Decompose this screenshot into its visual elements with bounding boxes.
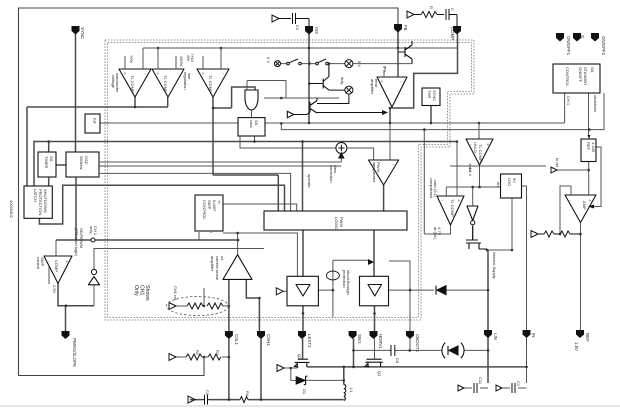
svg-text:IN: IN bbox=[531, 333, 536, 337]
svg-text:L1: L1 bbox=[349, 388, 354, 393]
svg-text:4.1 V: 4.1 V bbox=[468, 167, 473, 177]
svg-text:control: control bbox=[36, 257, 41, 269]
svg-text:(TTL level logic): (TTL level logic) bbox=[74, 228, 79, 257]
svg-text:CBOOT1: CBOOT1 bbox=[415, 334, 420, 353]
svg-text:5 V: 5 V bbox=[266, 57, 271, 63]
svg-text:amplifier: amplifier bbox=[370, 79, 375, 95]
svg-text:R4: R4 bbox=[245, 391, 250, 397]
svg-text:R: R bbox=[429, 6, 434, 9]
svg-text:operate: operate bbox=[307, 174, 312, 188]
svg-text:F/F: F/F bbox=[92, 118, 97, 125]
svg-text:LOGIC: LOGIC bbox=[334, 217, 339, 230]
svg-text:gm: gm bbox=[383, 66, 388, 72]
svg-text:to ref: to ref bbox=[555, 158, 560, 168]
svg-text:+: + bbox=[487, 142, 490, 147]
svg-text:C5: C5 bbox=[205, 390, 210, 396]
svg-text:on: on bbox=[496, 182, 501, 186]
svg-text:R1: R1 bbox=[215, 350, 220, 356]
svg-text:+: + bbox=[373, 162, 376, 167]
svg-text:CONTROL: CONTROL bbox=[565, 67, 570, 87]
svg-text:AMP: AMP bbox=[582, 201, 587, 210]
svg-text:ON/OFF: ON/OFF bbox=[578, 67, 583, 83]
svg-text:COMP: COMP bbox=[54, 260, 59, 272]
svg-text:LATCH: LATCH bbox=[33, 189, 38, 202]
svg-text:ON/OFF2: ON/OFF2 bbox=[601, 36, 606, 56]
svg-text:correction: correction bbox=[329, 165, 334, 183]
svg-text:Internal Supply: Internal Supply bbox=[492, 252, 497, 279]
svg-text:+: + bbox=[589, 198, 592, 203]
svg-text:LDO: LDO bbox=[507, 178, 512, 186]
svg-text:±50%: ±50% bbox=[179, 56, 184, 67]
svg-text:+: + bbox=[66, 259, 69, 264]
svg-text:C: C bbox=[450, 8, 455, 11]
svg-text:C1: C1 bbox=[516, 381, 521, 387]
svg-text:CH 1: CH 1 bbox=[566, 96, 571, 106]
svg-text:2.5V: 2.5V bbox=[52, 285, 57, 294]
svg-text:TL COMP: TL COMP bbox=[478, 144, 483, 162]
svg-text:only: only bbox=[89, 226, 94, 233]
svg-text:COMP: COMP bbox=[450, 27, 455, 40]
svg-text:SYNC: SYNC bbox=[80, 27, 85, 39]
svg-text:voltage: voltage bbox=[111, 75, 116, 89]
svg-text:PWM1/SLOPE: PWM1/SLOPE bbox=[72, 338, 77, 367]
svg-text:comparator: comparator bbox=[429, 178, 434, 199]
svg-text:REF: REF bbox=[585, 333, 590, 342]
svg-text:cont: cont bbox=[249, 120, 254, 128]
svg-text:+: + bbox=[458, 198, 461, 203]
svg-text:THR: THR bbox=[427, 90, 432, 98]
svg-text:10009402: 10009402 bbox=[9, 200, 14, 219]
svg-text:TL COMP: TL COMP bbox=[208, 75, 213, 93]
svg-text:CONTROL: CONTROL bbox=[202, 200, 207, 220]
svg-text:C11: C11 bbox=[478, 377, 483, 385]
svg-text:+: + bbox=[124, 71, 127, 76]
svg-text:C3: C3 bbox=[295, 25, 300, 31]
svg-text:70%: 70% bbox=[129, 55, 134, 63]
svg-text:amplifier: amplifier bbox=[210, 256, 215, 272]
svg-text:TIMER: TIMER bbox=[44, 156, 49, 169]
svg-text:UVLO: UVLO bbox=[473, 142, 478, 153]
svg-text:5 V: 5 V bbox=[357, 61, 362, 67]
svg-text:SS: SS bbox=[590, 67, 595, 73]
svg-text:protection: protection bbox=[342, 270, 347, 288]
svg-text:ON/OFF1: ON/OFF1 bbox=[566, 36, 571, 56]
svg-text:D1: D1 bbox=[302, 389, 307, 395]
svg-text:SW1: SW1 bbox=[357, 334, 362, 344]
svg-text:Q2: Q2 bbox=[297, 354, 302, 360]
svg-text:R2: R2 bbox=[195, 350, 200, 356]
svg-text:duty: duty bbox=[340, 77, 345, 85]
svg-text:LEXT1: LEXT1 bbox=[307, 334, 312, 348]
svg-text:ISS: ISS bbox=[314, 27, 319, 34]
svg-text:G: G bbox=[580, 35, 585, 39]
svg-text:Q1: Q1 bbox=[377, 371, 382, 377]
svg-text:CSL1: CSL1 bbox=[234, 334, 239, 346]
svg-text:FB: FB bbox=[403, 25, 408, 31]
svg-text:1.5V: 1.5V bbox=[574, 342, 579, 351]
svg-text:CH1 ref: CH1 ref bbox=[173, 286, 178, 301]
svg-text:TL COMP: TL COMP bbox=[450, 199, 455, 217]
svg-text:TL COMP: TL COMP bbox=[130, 75, 135, 93]
svg-text:TL COMP: TL COMP bbox=[163, 75, 168, 93]
svg-text:C8: C8 bbox=[395, 358, 400, 364]
svg-text:+: + bbox=[202, 71, 205, 76]
svg-text:regulation: regulation bbox=[183, 72, 188, 90]
svg-text:Only: Only bbox=[133, 285, 139, 296]
svg-text:shutdown: shutdown bbox=[593, 95, 598, 112]
svg-text:+: + bbox=[381, 79, 384, 84]
svg-text:at (OL): at (OL) bbox=[433, 227, 438, 240]
svg-text:/+10: /+10 bbox=[190, 54, 195, 63]
svg-text:REF: REF bbox=[586, 142, 591, 151]
svg-text:+: + bbox=[157, 71, 160, 76]
svg-text:260kHz: 260kHz bbox=[79, 156, 84, 170]
svg-text:CSH1: CSH1 bbox=[266, 334, 271, 346]
svg-text:LIN: LIN bbox=[493, 333, 498, 340]
svg-text:HDRV1: HDRV1 bbox=[378, 334, 383, 349]
